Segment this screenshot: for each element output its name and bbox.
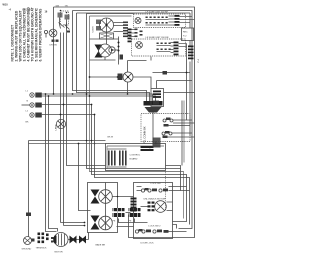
svg-text:BAKE BR: BAKE BR bbox=[96, 244, 106, 247]
svg-text:DR SW: DR SW bbox=[50, 45, 58, 47]
svg-text:8A 216: 8A 216 bbox=[23, 9, 32, 12]
svg-text:W10: W10 bbox=[3, 4, 9, 7]
svg-text:DOOR LOCK: DOOR LOCK bbox=[141, 243, 155, 245]
svg-text:BK W: BK W bbox=[108, 137, 115, 139]
svg-text:LOCK MOTOR: LOCK MOTOR bbox=[151, 199, 166, 201]
svg-text:GROUND: GROUND bbox=[22, 249, 32, 251]
svg-text:LF SURF UNIT SW RF: LF SURF UNIT SW RF bbox=[146, 12, 169, 14]
svg-text:REC: REC bbox=[183, 32, 188, 34]
svg-text:LAMP: LAMP bbox=[55, 124, 58, 130]
svg-text:TERM BLK: TERM BLK bbox=[36, 248, 47, 250]
svg-text:6. VERIFY PROPER OPERATIONS: 6. VERIFY PROPER OPERATIONS bbox=[39, 8, 43, 62]
svg-text:TH: TH bbox=[65, 6, 68, 8]
svg-text:CONTROL: CONTROL bbox=[130, 155, 141, 157]
svg-text:LOCK SW 2: LOCK SW 2 bbox=[149, 226, 162, 228]
svg-text:BOARD: BOARD bbox=[130, 158, 138, 161]
svg-text:P-1 CONN BK: P-1 CONN BK bbox=[143, 126, 147, 143]
svg-text:MOTOR: MOTOR bbox=[55, 252, 64, 254]
svg-text:LOCK SW: LOCK SW bbox=[151, 183, 162, 185]
svg-text:CONV: CONV bbox=[93, 26, 95, 33]
